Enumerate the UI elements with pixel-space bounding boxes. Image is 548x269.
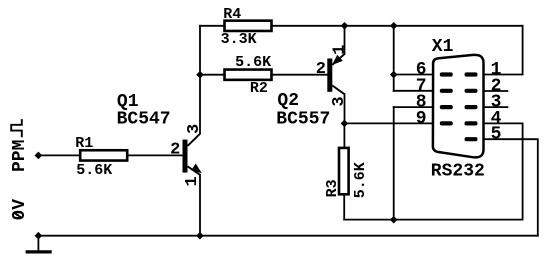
junction dot x393 rail <box>390 22 398 30</box>
wire Q1 emitter vertical <box>199 175 201 236</box>
wire R2 left stub <box>200 74 225 76</box>
transistor Q2 BC557 <box>276 45 349 130</box>
wire y219 across <box>344 219 522 221</box>
svg-text:5.6K: 5.6K <box>352 162 369 198</box>
pin bar 1 <box>465 72 478 76</box>
wire pin3 <box>484 106 507 108</box>
junction dot Q2 emitter rail <box>341 22 349 30</box>
wire pin2 <box>484 90 507 92</box>
junction dot Q1 emitter rail <box>196 232 204 240</box>
svg-text:5: 5 <box>491 125 502 145</box>
wire input to R1 <box>38 154 80 156</box>
wire Q2 collector vertical <box>344 94 346 123</box>
pin bar 9 <box>440 121 453 125</box>
pin bar 7 <box>440 89 453 93</box>
svg-text:2: 2 <box>316 60 326 79</box>
svg-text:3: 3 <box>185 124 204 134</box>
pin bar 5 <box>465 137 478 141</box>
svg-text:BC547: BC547 <box>117 110 171 130</box>
svg-text:X1: X1 <box>432 37 454 57</box>
pin bar 8 <box>440 105 453 109</box>
wire R2 right to Q2 base <box>272 74 328 76</box>
junction dot ground <box>35 232 43 240</box>
junction dot pin6 <box>390 71 398 79</box>
pin bar 4 <box>465 121 478 125</box>
svg-text:3.3K: 3.3K <box>221 31 257 48</box>
svg-text:RS232: RS232 <box>431 162 485 182</box>
wire ground stub <box>37 236 39 251</box>
wire pin4 drop <box>484 123 523 219</box>
connector X1 DB9 <box>416 37 502 182</box>
resistor R1 <box>75 135 127 179</box>
svg-text:3: 3 <box>330 96 349 106</box>
svg-text:BC557: BC557 <box>276 110 330 130</box>
wire pin6 <box>394 74 433 76</box>
svg-text:R3: R3 <box>324 179 341 197</box>
svg-text:PPM: PPM <box>10 140 30 172</box>
svg-text:9: 9 <box>416 109 427 129</box>
wire R3 top <box>343 123 345 147</box>
wire pin1 drop from rail <box>484 26 523 75</box>
wire Q1 collector vertical <box>199 26 201 134</box>
svg-text:R2: R2 <box>250 80 268 97</box>
pin bar 6 <box>440 72 453 76</box>
junction dot pin8 y219 <box>390 216 398 224</box>
wire x393 lower vertical <box>393 107 395 220</box>
wire pin5 <box>484 139 538 236</box>
svg-text:Q2: Q2 <box>277 91 299 111</box>
pin bar 2 <box>465 89 478 93</box>
junction dot input <box>35 152 43 160</box>
junction dot Q2 collector pin9 <box>341 120 349 128</box>
wire Q2 emitter vertical <box>344 26 346 54</box>
ground <box>26 250 52 253</box>
junction dot R2 node <box>196 71 204 79</box>
wire pin8 <box>394 106 433 108</box>
node 0V label <box>10 199 30 221</box>
resistor R3 <box>324 148 369 198</box>
resistor R4 <box>221 6 272 48</box>
wire top rail <box>200 25 523 27</box>
svg-text:1: 1 <box>331 45 350 55</box>
wire pin7 <box>394 90 433 92</box>
resistor R2 <box>225 54 272 97</box>
svg-text:R4: R4 <box>223 6 241 23</box>
svg-text:5.6K: 5.6K <box>76 162 112 179</box>
node PPM input label <box>10 119 30 172</box>
svg-text:5.6K: 5.6K <box>235 54 271 71</box>
transistor Q1 BC547 <box>117 92 204 186</box>
wire pin9 <box>344 122 433 124</box>
wire R1 to Q1 base <box>129 154 183 156</box>
wire bottom rail 0V <box>38 235 537 237</box>
svg-text:1: 1 <box>183 176 202 186</box>
svg-text:R1: R1 <box>75 135 93 152</box>
wire R3 bottom <box>343 195 345 220</box>
pin bar 3 <box>465 105 478 109</box>
svg-text:2: 2 <box>170 140 180 159</box>
wire x393 upper vertical <box>393 26 395 91</box>
